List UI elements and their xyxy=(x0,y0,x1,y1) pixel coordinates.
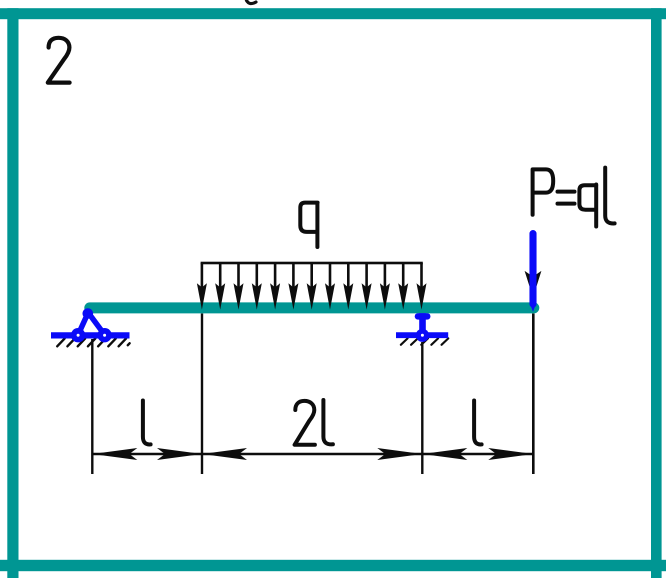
distributed load arrows (13) xyxy=(197,263,427,310)
pin support apex circle xyxy=(83,308,94,319)
pin support ground line xyxy=(51,332,130,338)
extension line at pin support xyxy=(91,339,93,474)
stray text fragment above top border xyxy=(247,1,257,4)
frame top border xyxy=(0,8,666,19)
force P blue arrow xyxy=(529,234,536,304)
frame left border xyxy=(7,8,18,578)
force P black arrowhead xyxy=(525,271,542,298)
frame right border xyxy=(651,8,662,578)
dim arrowheads at roller xyxy=(377,448,422,460)
frame bottom border xyxy=(0,560,666,571)
cell number 2 xyxy=(48,38,70,83)
beam xyxy=(84,302,539,313)
dimension line xyxy=(92,453,533,455)
pin support triangle legs xyxy=(78,313,105,335)
distributed load top line xyxy=(201,262,423,265)
roller support circle xyxy=(416,329,429,342)
label P=ql xyxy=(533,169,554,214)
extension line at roller support xyxy=(421,342,423,474)
pin support base circles xyxy=(71,328,85,342)
extension line at beam right end xyxy=(532,314,535,475)
hatching under pin support xyxy=(57,339,129,347)
dim arrowhead right outward xyxy=(488,448,533,460)
dim arrowhead left outward xyxy=(92,448,137,460)
label l (left span) xyxy=(143,401,151,445)
roller support stem xyxy=(415,313,431,319)
extension line at load start xyxy=(201,314,203,475)
dim arrowheads at load start xyxy=(157,448,202,460)
roller support ground line xyxy=(396,332,448,338)
hatching under roller support xyxy=(401,338,449,344)
label l (right span) xyxy=(474,401,482,445)
label 2l (middle span) xyxy=(295,401,315,445)
label q (distributed load) xyxy=(300,203,317,247)
